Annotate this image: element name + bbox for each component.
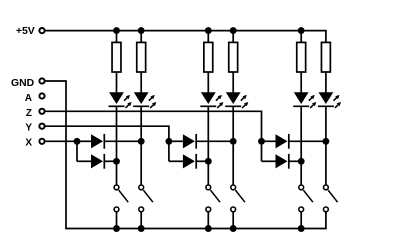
- terminal A (unconnected): [39, 93, 44, 98]
- svg-text:+5V: +5V: [16, 25, 35, 37]
- switch S2: [139, 185, 153, 212]
- wire node Y1 down: [168, 141, 170, 161]
- wire LED5 cathode to switch S5: [300, 106, 302, 184]
- wire Z to block 3: [45, 111, 261, 141]
- junction on +5V rail col 2: [138, 27, 145, 34]
- wire S1 to ground bus: [116, 212, 118, 228]
- switch S4: [231, 185, 245, 212]
- wire LED1 cathode to switch S1: [116, 106, 118, 184]
- junction D5 cathode at column: [322, 138, 329, 145]
- terminal Z: [39, 109, 44, 114]
- wire into D1: [77, 140, 92, 142]
- junction on ground bus col 1: [113, 225, 120, 232]
- junction D6 cathode at column: [298, 158, 305, 165]
- wire R4 to LED4: [232, 72, 234, 93]
- LED1: [109, 92, 132, 108]
- wire D4 cathode: [196, 160, 208, 162]
- wire Y to block 2: [45, 126, 168, 141]
- wire +5V rail to R5: [300, 31, 302, 43]
- wire GND terminal to bus: [45, 80, 66, 82]
- svg-text:A: A: [25, 93, 32, 104]
- wire R3 to LED3: [207, 72, 209, 93]
- resistor R6: [321, 42, 330, 72]
- wire S4 to ground bus: [232, 212, 234, 228]
- junction D1 cathode at column: [138, 138, 145, 145]
- switch S3: [206, 185, 220, 212]
- terminal X: [39, 139, 44, 144]
- wire LED6 cathode to switch S6: [325, 106, 327, 184]
- wire R5 to LED5: [300, 72, 302, 93]
- wire LED2 cathode to switch S2: [140, 106, 142, 184]
- diode D6: [276, 154, 289, 169]
- junction node Z1: [258, 138, 265, 145]
- wire D3 cathode: [196, 140, 233, 142]
- diode D5: [276, 134, 289, 149]
- junction on ground bus col 2: [138, 225, 145, 232]
- resistor R4: [229, 42, 238, 72]
- junction node Y1: [165, 138, 172, 145]
- ground bus (bottom rail): [66, 81, 326, 229]
- wire +5V rail to R4: [232, 31, 234, 43]
- junction D3 cathode at column: [230, 138, 237, 145]
- wire S5 to ground bus: [300, 212, 302, 228]
- wire R6 to LED6: [325, 72, 327, 93]
- junction on +5V rail col 4: [230, 27, 237, 34]
- wire node X1 down: [76, 141, 78, 161]
- diode D1: [91, 134, 104, 149]
- wire D6 cathode: [289, 160, 301, 162]
- junction on +5V rail col 3: [205, 27, 212, 34]
- wire LED3 cathode to switch S3: [207, 106, 209, 184]
- wire D2 cathode: [104, 160, 116, 162]
- wire into D4: [169, 160, 184, 162]
- resistor R5: [297, 42, 306, 72]
- LED5: [293, 92, 316, 108]
- svg-text:X: X: [25, 138, 32, 149]
- wire S3 to ground bus: [207, 212, 209, 228]
- wire into D5: [262, 140, 277, 142]
- junction node X1: [74, 138, 81, 145]
- wire R2 to LED2: [140, 72, 142, 93]
- wire node Z1 down: [261, 141, 263, 161]
- wire R1 to LED1: [116, 72, 118, 93]
- terminal Y: [39, 124, 44, 129]
- wire into D2: [77, 160, 92, 162]
- wire into D6: [262, 160, 277, 162]
- junction D4 cathode at column: [205, 158, 212, 165]
- junction D2 cathode at column: [113, 158, 120, 165]
- wire +5V rail to R1: [116, 31, 118, 43]
- wire S2 to ground bus: [140, 212, 142, 228]
- resistor R1: [112, 42, 121, 72]
- LED6: [318, 92, 341, 108]
- wire S6 to ground bus: [325, 212, 327, 214]
- wire +5V rail to R3: [207, 31, 209, 43]
- wire +5V rail to R2: [140, 31, 142, 43]
- resistor R3: [204, 42, 213, 72]
- svg-text:Z: Z: [26, 108, 32, 119]
- terminal GND: [39, 78, 44, 83]
- switch S5: [299, 185, 313, 212]
- junction on +5V rail col 1: [113, 27, 120, 34]
- terminal +5V: [39, 28, 44, 33]
- wire LED4 cathode to switch S4: [232, 106, 234, 184]
- resistor R2: [137, 42, 146, 72]
- +5V supply rail (top): [45, 31, 326, 43]
- wire D1 cathode: [104, 140, 141, 142]
- wire into D3: [169, 140, 184, 142]
- LED3: [200, 92, 223, 108]
- junction on ground bus col 5: [298, 225, 305, 232]
- junction on +5V rail col 5: [298, 27, 305, 34]
- svg-text:Y: Y: [25, 123, 32, 134]
- junction on ground bus col 4: [230, 225, 237, 232]
- diode D3: [183, 134, 196, 149]
- diode D2: [91, 154, 104, 169]
- switch S1: [114, 185, 128, 212]
- switch S6: [324, 185, 338, 212]
- svg-text:GND: GND: [11, 78, 35, 89]
- diode D4: [183, 154, 196, 169]
- junction on ground bus col 3: [205, 225, 212, 232]
- wire X to node X1: [45, 140, 77, 142]
- wire D5 cathode: [289, 140, 326, 142]
- LED4: [225, 92, 248, 108]
- LED2: [133, 92, 156, 108]
